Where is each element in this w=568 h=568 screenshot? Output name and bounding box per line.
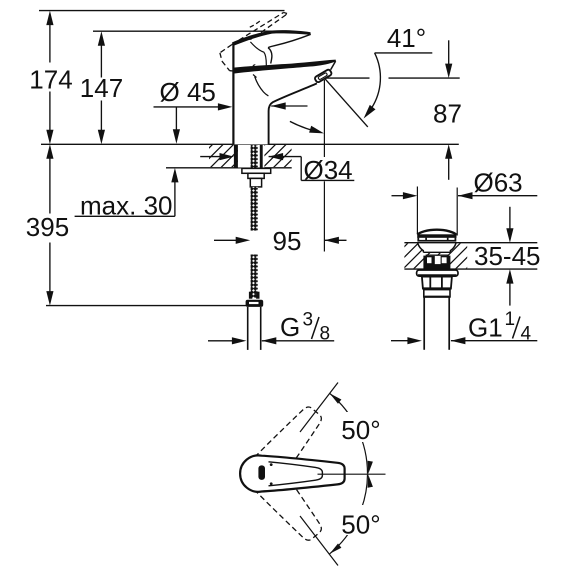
drain deck hatching: [404, 243, 467, 268]
50deg lower ray: [300, 516, 338, 566]
aerator outer: [314, 69, 332, 83]
dashed raised lever top edge: [232, 12, 284, 44]
aerator inner: [318, 72, 328, 79]
faucet body left edge: [232, 42, 234, 144]
faucet body fill: [233, 60, 335, 145]
flexible supply hose upper segment: [251, 187, 258, 231]
threaded shank (braided pattern) in deck: [251, 145, 258, 168]
mounting step 2: [250, 178, 261, 187]
dimension 395 vertical line: [49, 158, 51, 214]
50deg lower arrow at ray: [330, 544, 342, 554]
50deg upper arc: [330, 393, 368, 473]
supply tube left edge: [247, 307, 249, 350]
dimension 147 vertical line: [100, 45, 102, 78]
svg-text:50°: 50°: [341, 415, 380, 445]
drain flange under deck: [417, 270, 458, 276]
svg-text:3: 3: [303, 310, 314, 331]
O45 leader drop: [175, 107, 177, 130]
faucet spout underside: [269, 83, 317, 144]
dashed handle position upper (+50deg): [249, 400, 330, 487]
svg-text:41°: 41°: [387, 23, 426, 53]
drain cap lower band: [418, 238, 457, 240]
top reference line (174 upper datum): [39, 10, 285, 12]
svg-text:87: 87: [433, 98, 462, 128]
svg-text:95: 95: [273, 226, 302, 256]
dashed raised lever underside: [240, 15, 286, 48]
faucet lever top edge (thick): [233, 30, 310, 46]
50deg lower arc: [330, 475, 368, 554]
50deg lower arrow at centreline: [368, 474, 373, 487]
handle outline: [240, 455, 344, 491]
O45 arrow left (body right side): [271, 102, 286, 109]
O45 arrow down: [173, 129, 180, 144]
41deg arc: [372, 53, 381, 108]
95 right arrow: [324, 237, 339, 244]
50deg lower arc gap: [339, 505, 386, 535]
O45 arrow right: [218, 103, 233, 110]
hose crimp tabs: [249, 292, 252, 299]
drain skirt: [424, 290, 450, 297]
svg-text:Ø 45: Ø 45: [160, 77, 216, 107]
reference line (147 upper datum): [93, 30, 272, 32]
hose end nut: [246, 300, 264, 307]
svg-text:174: 174: [29, 65, 72, 95]
svg-text:35-45: 35-45: [474, 241, 541, 271]
O63 extension line right: [456, 188, 458, 236]
35-45 lower arrow: [506, 269, 513, 284]
87 upper arrow: [445, 64, 452, 79]
50deg upper arrow at ray: [330, 393, 342, 403]
faucet base edge through deck (left): [234, 145, 238, 169]
G1-1/4 dim line right: [451, 337, 466, 344]
faucet lever fill: [233, 32, 310, 66]
supply tube right edge: [260, 307, 262, 350]
50deg upper arrow at centreline: [368, 461, 373, 474]
G1-1/4 dim line left: [391, 340, 408, 342]
flow direction curved arrow: [290, 121, 312, 130]
faucet lever skirt contour: [250, 42, 266, 66]
svg-text:G: G: [280, 312, 300, 342]
drain deck bottom line: [404, 268, 537, 270]
dimension 174 vertical line: [49, 24, 51, 63]
max.30 arrow: [171, 168, 178, 183]
drain tailpipe left edge: [423, 298, 425, 350]
35-45 upper extension: [509, 207, 511, 229]
O63 extension line left: [416, 187, 418, 234]
svg-text:1: 1: [505, 309, 516, 330]
handle slot: [258, 465, 265, 480]
countertop hatching: [209, 145, 292, 167]
dashed handle position lower (-50deg): [249, 461, 330, 548]
svg-text:395: 395: [26, 212, 69, 242]
svg-text:Ø34: Ø34: [304, 155, 353, 185]
O45 leader line: [154, 106, 219, 108]
dashed raised lever base outline: [220, 45, 232, 53]
O34 arrow right-side: [269, 153, 284, 160]
dashed raised lever skirt curve: [250, 20, 262, 27]
50deg upper ray: [300, 383, 338, 433]
87 upper extension: [448, 40, 450, 65]
drain valve funnel body: [418, 243, 457, 252]
35-45 upper arrow: [506, 228, 513, 243]
faucet body-spout inner contour: [255, 77, 269, 96]
drain valve slotted block: [423, 256, 450, 270]
faucet lever underside: [268, 34, 311, 47]
G3/8 dim line right: [262, 337, 277, 344]
drain cap dome: [417, 230, 456, 235]
dashed raised lever tip: [284, 12, 287, 15]
87 lower arrow: [445, 144, 452, 159]
flexible supply hose lower segment: [251, 255, 258, 298]
mounting flange under deck: [242, 168, 271, 173]
handle dot lower: [270, 482, 273, 485]
svg-text:147: 147: [80, 73, 123, 103]
41deg shoulder line: [375, 52, 433, 54]
faucet spout tip face: [331, 61, 336, 70]
41deg arc arrow: [364, 105, 376, 119]
countertop bottom line: [166, 167, 292, 169]
O34 arrow left-side: [200, 156, 220, 158]
faucet spout top edge (thick): [233, 60, 336, 74]
max.30 leader line: [75, 215, 175, 217]
O63 dim line right: [458, 192, 473, 199]
handle inner contour: [269, 462, 323, 486]
drain tailpipe right edge: [448, 298, 450, 350]
faucet mounting hole (white): [238, 145, 265, 168]
50deg upper arc gap: [339, 412, 386, 442]
countertop top line: [41, 143, 459, 145]
dashed fragment below spout band: [253, 75, 257, 78]
O34 bracket: [300, 157, 302, 181]
95 left arrow: [236, 237, 251, 244]
35-45 lower extension: [509, 283, 511, 306]
svg-text:Ø63: Ø63: [474, 168, 523, 198]
drain deck top line: [404, 242, 537, 244]
mounting step 1: [248, 173, 264, 178]
bottom reference line (395 lower datum): [46, 305, 246, 307]
svg-text:50°: 50°: [341, 510, 380, 540]
drain hex nut: [422, 277, 452, 289]
41deg inclined line: [325, 79, 368, 127]
spout outlet extension line: [323, 80, 325, 157]
spout outlet height reference line: [325, 77, 370, 79]
drain cap bottom rim: [417, 240, 456, 242]
dashed lever base blob: [237, 66, 251, 72]
faucet shank edge through deck (right): [260, 145, 263, 169]
svg-text:4: 4: [521, 324, 532, 345]
drain cap rim: [417, 234, 456, 238]
O63 dim line left: [392, 195, 404, 197]
95 left line: [214, 239, 237, 241]
handle dot upper: [270, 463, 273, 466]
svg-text:8: 8: [320, 324, 331, 345]
svg-text:G1: G1: [468, 313, 503, 343]
handle centreline: [318, 473, 386, 475]
G3/8 dim line left: [208, 340, 233, 342]
87 lower extension: [448, 158, 450, 180]
faucet lever neck: [268, 48, 272, 64]
